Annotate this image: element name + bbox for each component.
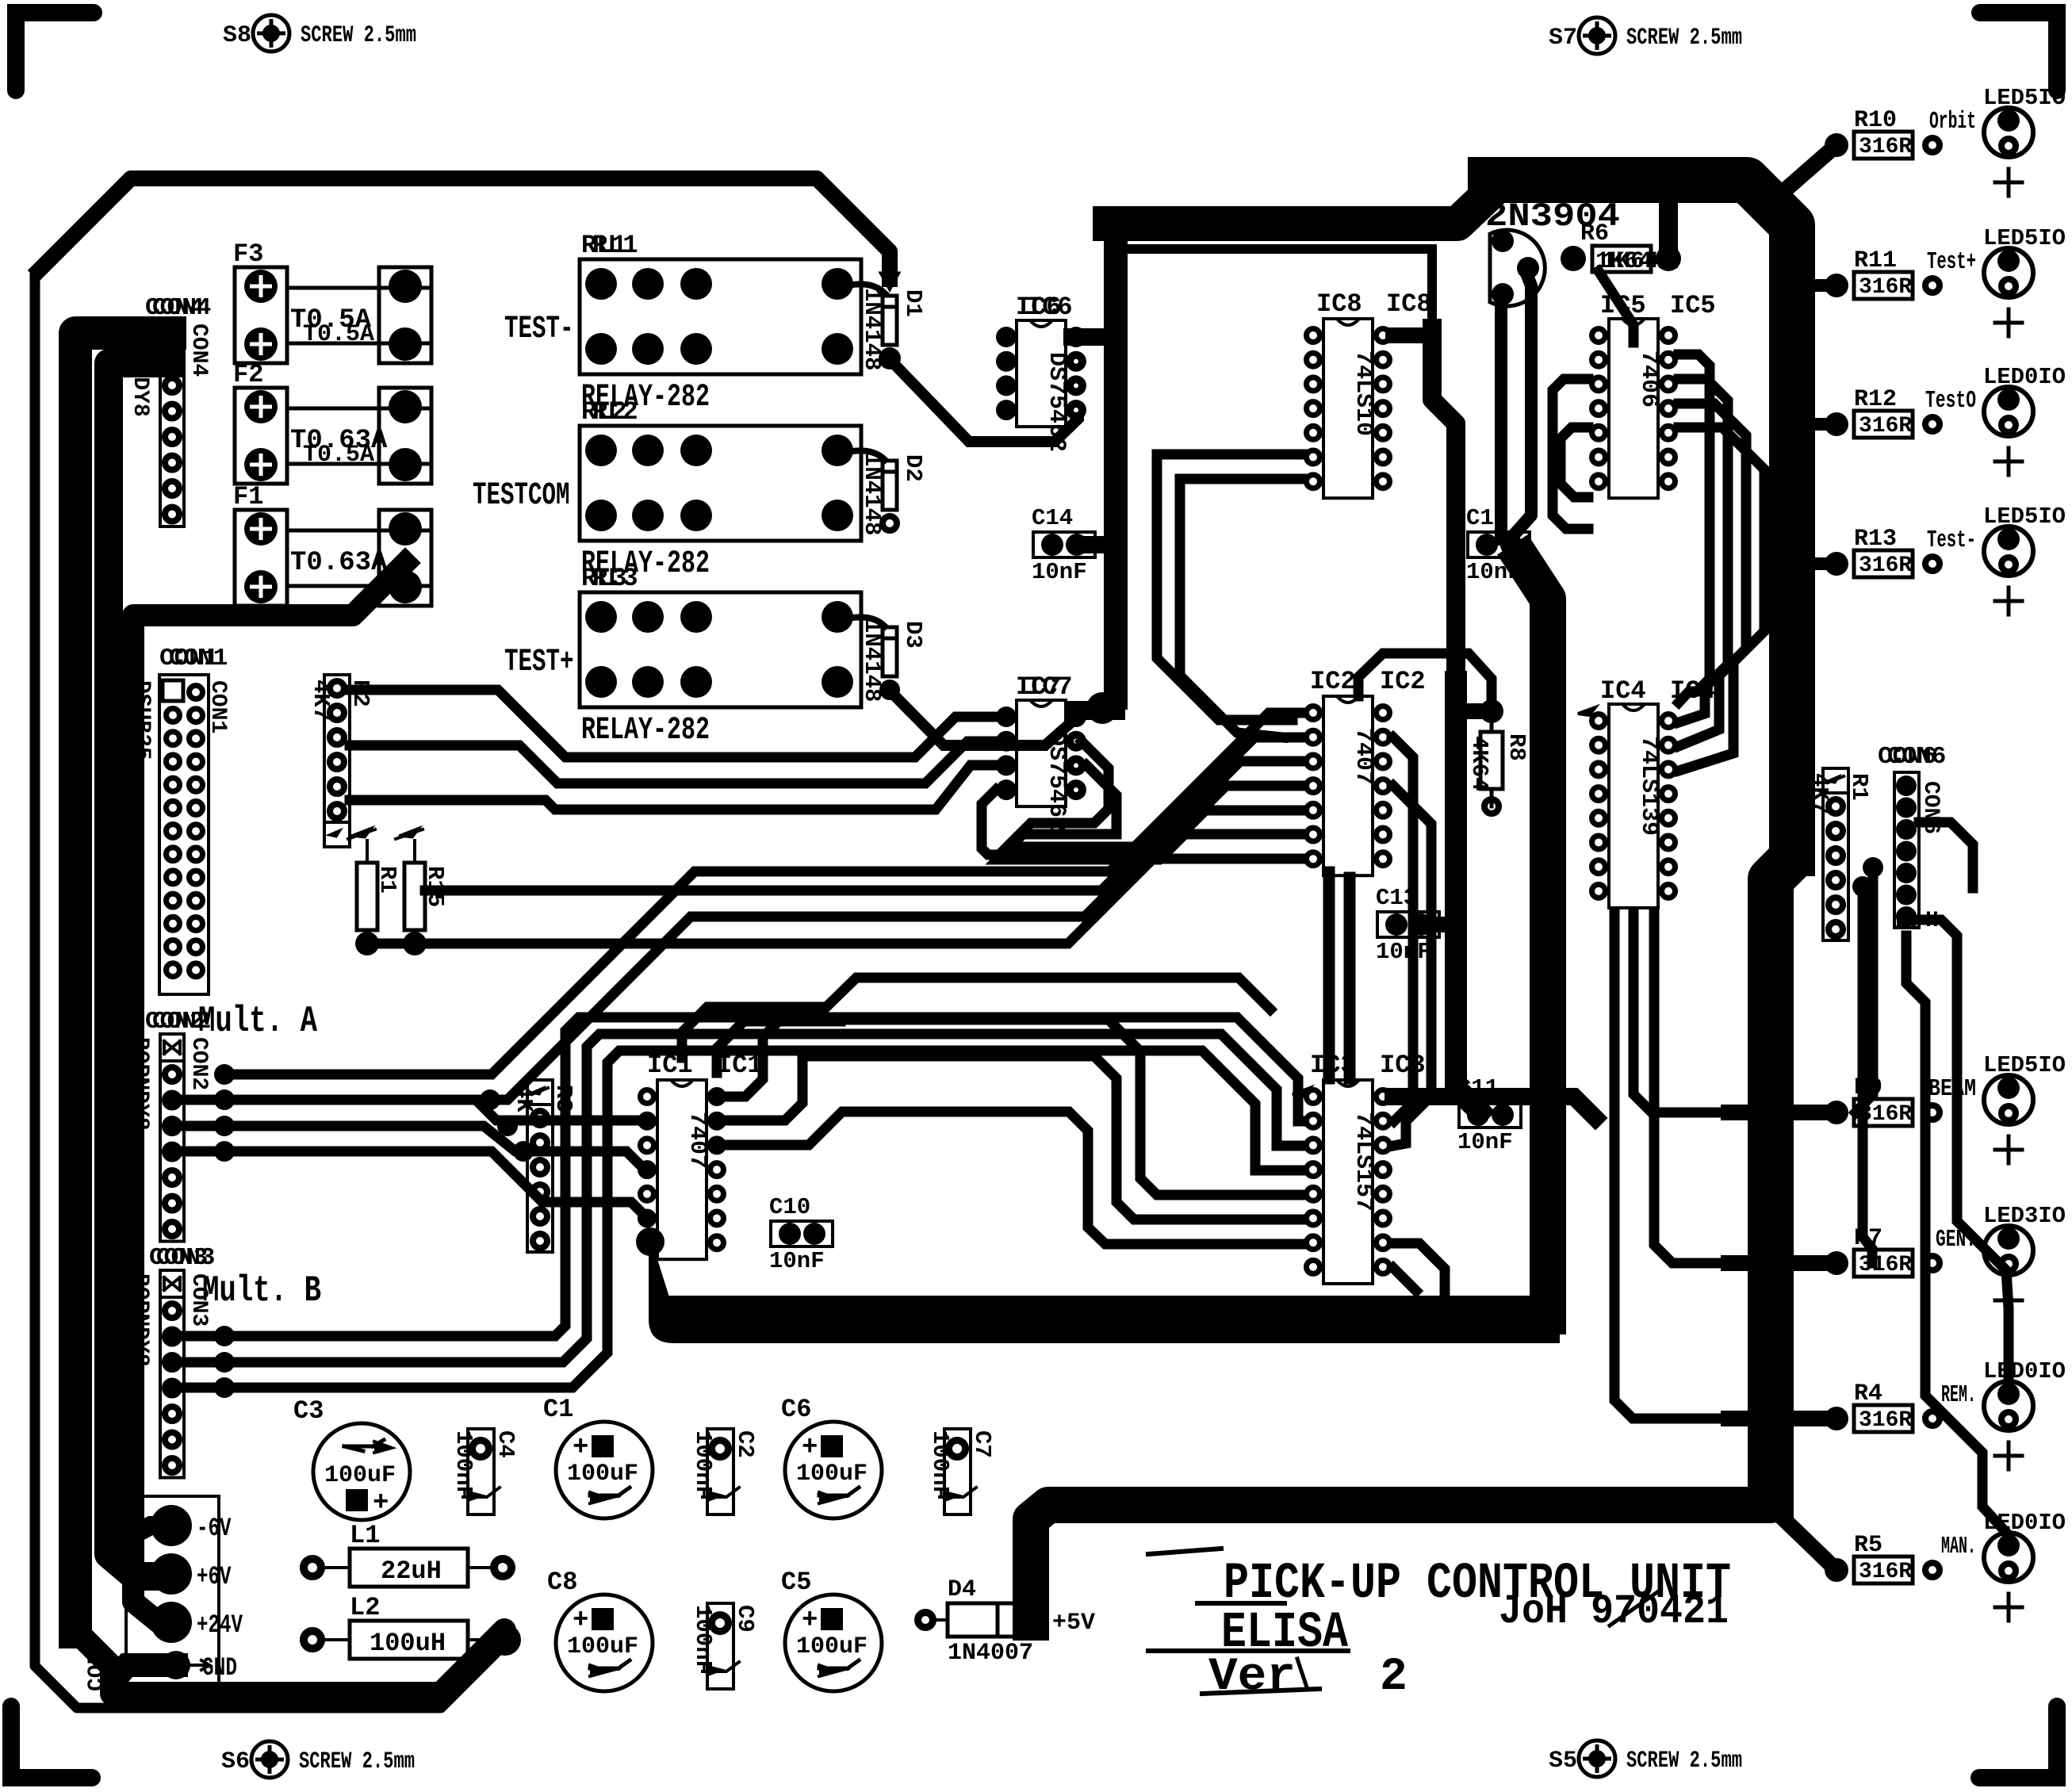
svg-text:RL1: RL1 bbox=[592, 231, 638, 260]
resistor R4 316R bbox=[1825, 1407, 1848, 1430]
resistor R8 4K64 bbox=[1480, 699, 1503, 723]
screw S6 bbox=[251, 1741, 288, 1778]
connector CON3 BORNDY8 bbox=[160, 1270, 184, 1478]
wire CON6 hook right bbox=[1919, 822, 1973, 888]
svg-text:IC4: IC4 bbox=[1600, 676, 1646, 706]
svg-text:CON4: CON4 bbox=[186, 324, 211, 377]
corner mark top-left bbox=[16, 13, 94, 90]
wire IC3 pin16 to bus2 bbox=[1393, 1097, 1595, 1118]
svg-text:100uH: 100uH bbox=[370, 1629, 446, 1658]
node D2 cathode pad bbox=[883, 516, 897, 530]
inductor L1 22uH bbox=[304, 1559, 321, 1576]
svg-text:2: 2 bbox=[1380, 1652, 1408, 1703]
wire IC8 outputs down to IC2 bbox=[1157, 454, 1303, 720]
wire IC5 right bundle down to IC4 bbox=[1679, 354, 1710, 703]
resistor R11 316R bbox=[1825, 274, 1848, 297]
svg-text:D1: D1 bbox=[900, 289, 926, 317]
fuse F2 bbox=[235, 388, 287, 484]
svg-text:BORNDY8: BORNDY8 bbox=[128, 324, 152, 417]
wire IC5 left hooks bbox=[1553, 379, 1588, 529]
wire arrow into D1 bbox=[880, 273, 899, 290]
svg-text:316R: 316R bbox=[1859, 553, 1912, 578]
svg-text:+: + bbox=[373, 1488, 389, 1518]
svg-text:R4: R4 bbox=[1854, 1380, 1882, 1407]
svg-text:IC2: IC2 bbox=[1310, 667, 1356, 696]
svg-text:DSUB25: DSUB25 bbox=[129, 680, 154, 760]
capacitor C13 10nF bbox=[1377, 912, 1439, 937]
svg-text:C7: C7 bbox=[969, 1430, 995, 1458]
svg-text:LED5IO: LED5IO bbox=[1983, 1052, 2066, 1078]
svg-text:S8: S8 bbox=[223, 22, 251, 49]
LED LED0IO TestO bbox=[1984, 387, 2033, 436]
svg-text:R11: R11 bbox=[1854, 247, 1897, 274]
wire R8 stub bbox=[1456, 703, 1489, 719]
svg-text:100uF: 100uF bbox=[324, 1462, 396, 1489]
wire IC3 right pads to bar A bbox=[1393, 1243, 1445, 1297]
svg-text:CON1: CON1 bbox=[169, 645, 228, 672]
IC IC1 7407 bbox=[657, 1080, 707, 1259]
svg-text:4K64: 4K64 bbox=[1466, 736, 1492, 791]
node IC3 pin1 mark bbox=[1293, 1088, 1310, 1096]
wire D3 cathode to IC7 bbox=[887, 688, 1078, 745]
node D3 cathode pad bbox=[883, 683, 897, 697]
wire bus stubs R9 R7 R4 bbox=[1729, 1105, 1836, 1120]
svg-text:R13: R13 bbox=[1854, 526, 1897, 553]
wire bus diag to R10 bbox=[1792, 145, 1836, 184]
node +5V bbox=[1014, 1606, 1041, 1633]
wire CON5 GND pad trace bbox=[119, 1665, 176, 1675]
wire IC2 bottom pair to IC3 bbox=[1323, 872, 1335, 1078]
svg-text:100nF: 100nF bbox=[690, 1430, 716, 1499]
IC IC5 7406 bbox=[1609, 319, 1658, 498]
capacitor C9 100nF bbox=[707, 1603, 733, 1689]
svg-text:+: + bbox=[802, 1606, 818, 1636]
wire IC4 outputs down to R9/R7/R4 rows bbox=[1633, 912, 1836, 1112]
capacitor C10 10nF bbox=[771, 1221, 833, 1246]
svg-text:-6V: -6V bbox=[197, 1514, 232, 1543]
svg-text:T0.5A: T0.5A bbox=[303, 321, 374, 348]
svg-text:LED5IO: LED5IO bbox=[1983, 504, 2066, 530]
svg-text:LED0IO: LED0IO bbox=[1983, 364, 2066, 390]
svg-text:C10: C10 bbox=[769, 1194, 810, 1220]
svg-text:CON1: CON1 bbox=[205, 680, 230, 733]
svg-text:LED3IO: LED3IO bbox=[1983, 1203, 2066, 1229]
svg-text:74LS10: 74LS10 bbox=[1350, 350, 1377, 436]
wire bus stubs R11-R13 bbox=[1792, 279, 1836, 292]
diode D2 1N4148 bbox=[883, 461, 897, 510]
svg-text:Mult. A: Mult. A bbox=[198, 1001, 317, 1042]
svg-text:BORNDY8: BORNDY8 bbox=[128, 1037, 152, 1131]
wire IC2 right wraps bbox=[1358, 653, 1492, 703]
screw S7 bbox=[1579, 17, 1615, 54]
resistor R12 316R bbox=[1825, 412, 1848, 436]
svg-text:100nF: 100nF bbox=[450, 1430, 477, 1499]
IC IC4 74LS139 bbox=[1609, 704, 1658, 908]
svg-text:C1: C1 bbox=[543, 1395, 573, 1424]
connector CON6 bbox=[1894, 772, 1919, 928]
svg-text:DS75462: DS75462 bbox=[1043, 352, 1070, 452]
svg-text:C2: C2 bbox=[732, 1430, 758, 1458]
node CON5 GND pad bbox=[162, 1651, 190, 1679]
svg-text:BORNDY8: BORNDY8 bbox=[128, 1273, 152, 1367]
svg-text:RL3: RL3 bbox=[592, 564, 638, 593]
svg-text:+: + bbox=[802, 1433, 818, 1463]
wire RL1 pad to D1 anode bbox=[841, 284, 885, 293]
svg-text:74LS157: 74LS157 bbox=[1350, 1112, 1377, 1212]
LED LED3IO GEN. bbox=[1984, 1226, 2033, 1275]
svg-text:+: + bbox=[573, 1606, 588, 1636]
resistor network R1 4K7 bbox=[1823, 768, 1848, 940]
svg-text:TEST-: TEST- bbox=[504, 312, 574, 347]
svg-text:C4: C4 bbox=[492, 1430, 519, 1458]
connector CON1 DSUB25 bbox=[159, 675, 209, 994]
svg-text:R1: R1 bbox=[1846, 773, 1872, 801]
svg-text:C14: C14 bbox=[1032, 505, 1073, 531]
svg-text:C8: C8 bbox=[547, 1568, 577, 1597]
fuse F1 bbox=[235, 510, 287, 606]
wire bundle B1 from R2/R15/CON2 to IC2 bbox=[350, 690, 996, 757]
svg-text:100nF: 100nF bbox=[690, 1605, 716, 1674]
wire inner line below top bus bbox=[1127, 249, 1432, 333]
board outline top edge bbox=[39, 178, 890, 279]
wire bus stub C14 bbox=[1080, 536, 1116, 553]
IC IC7 DS75462 bbox=[1017, 700, 1066, 806]
svg-text:100uF: 100uF bbox=[796, 1633, 867, 1660]
svg-text:+6V: +6V bbox=[197, 1562, 232, 1591]
svg-text:316R: 316R bbox=[1859, 135, 1912, 159]
svg-text:D2: D2 bbox=[900, 454, 926, 482]
svg-text:LED5IO: LED5IO bbox=[1983, 225, 2066, 251]
svg-text:Ver: Ver bbox=[1208, 1652, 1296, 1703]
IC IC8 74LS10 bbox=[1323, 319, 1373, 498]
fuse F3 bbox=[235, 267, 287, 363]
svg-text:T0.63A: T0.63A bbox=[290, 548, 388, 578]
svg-text:F1: F1 bbox=[233, 482, 263, 511]
svg-text:316R: 316R bbox=[1859, 1253, 1912, 1277]
node IC1 ground blob bbox=[636, 1227, 664, 1256]
svg-text:CON4: CON4 bbox=[152, 294, 211, 322]
svg-text:IC5: IC5 bbox=[1670, 291, 1716, 320]
capacitor C4 100nF bbox=[468, 1429, 494, 1514]
wire fuse F1 to +24V rail bbox=[133, 563, 405, 1622]
LED LED5IO Test- bbox=[1984, 526, 2033, 576]
svg-text:Test-: Test- bbox=[1927, 526, 1976, 554]
resistor network R2 4K7 bbox=[324, 675, 350, 847]
svg-text:316R: 316R bbox=[1859, 1408, 1912, 1433]
wire verticals to REM/MAN leds bbox=[1919, 920, 2009, 1390]
svg-text:R1: R1 bbox=[374, 866, 400, 894]
wire bus1 vertical bbox=[1456, 682, 1480, 1112]
svg-text:R10: R10 bbox=[1854, 107, 1897, 134]
node IC4 pin1 mark bbox=[1578, 707, 1595, 715]
wire RL2 pad to D2 anode bbox=[841, 450, 885, 460]
capacitor C14 10nF bbox=[1033, 532, 1095, 557]
LED LED0IO MAN. bbox=[1984, 1533, 2033, 1582]
wire R6 to IC5 bbox=[1599, 271, 1633, 343]
svg-text:100uF: 100uF bbox=[567, 1633, 638, 1660]
svg-text:Orbit: Orbit bbox=[1929, 108, 1976, 136]
capacitor C1 100uF bbox=[556, 1422, 653, 1518]
svg-text:C5: C5 bbox=[781, 1568, 811, 1597]
wire IC8 pin stub bbox=[1393, 327, 1432, 343]
corner mark bottom-left bbox=[11, 1706, 92, 1778]
IC IC3 74LS157 bbox=[1323, 1080, 1373, 1284]
wire bus blob at IC7 bbox=[1075, 701, 1116, 720]
svg-text:LED0IO: LED0IO bbox=[1983, 1358, 2066, 1384]
svg-text:SCREW 2.5mm: SCREW 2.5mm bbox=[299, 1748, 415, 1775]
svg-text:TESTCOM: TESTCOM bbox=[473, 478, 570, 514]
svg-text:REM.: REM. bbox=[1941, 1381, 1976, 1409]
svg-text:7406: 7406 bbox=[1635, 350, 1662, 408]
svg-text:100uF: 100uF bbox=[796, 1461, 867, 1488]
connector CON5 bbox=[126, 1496, 219, 1688]
svg-text:CON6: CON6 bbox=[1887, 743, 1946, 771]
wire GND bus2 vertical bbox=[1522, 560, 1548, 1316]
wire IC1 right pads staircase to IC3 bbox=[717, 1020, 1303, 1195]
resistor R7 316R bbox=[1825, 1251, 1848, 1275]
svg-text:DS75462: DS75462 bbox=[1043, 732, 1070, 832]
svg-text:74LS139: 74LS139 bbox=[1635, 736, 1662, 836]
svg-text:LED5IO: LED5IO bbox=[1983, 85, 2066, 111]
svg-text:T0.5A: T0.5A bbox=[303, 442, 374, 469]
resistor R10 316R bbox=[1825, 133, 1848, 157]
svg-text:100uF: 100uF bbox=[567, 1461, 638, 1488]
svg-text:D4: D4 bbox=[948, 1576, 976, 1603]
svg-text:R6: R6 bbox=[1580, 220, 1609, 247]
wire +6V trace from CON4 pin2 down to CON5 bbox=[109, 363, 170, 1576]
svg-text:IC8: IC8 bbox=[1316, 289, 1362, 319]
corner mark top-right bbox=[1980, 13, 2057, 90]
svg-text:JoH 970421: JoH 970421 bbox=[1499, 1588, 1729, 1635]
connector CON2 BORNDY8 bbox=[160, 1034, 184, 1242]
svg-text:R12: R12 bbox=[1854, 386, 1897, 413]
svg-text:MAN.: MAN. bbox=[1941, 1533, 1976, 1560]
wire CON6 verticals to R9/R7 bbox=[1856, 867, 1873, 1112]
svg-text:S7: S7 bbox=[1549, 25, 1577, 52]
svg-text:C9: C9 bbox=[732, 1605, 758, 1633]
svg-text:Mult. B: Mult. B bbox=[202, 1270, 321, 1311]
diode D1 1N4148 bbox=[883, 296, 897, 345]
svg-text:CON3: CON3 bbox=[156, 1244, 215, 1272]
resistor R13 316R bbox=[1825, 552, 1848, 576]
capacitor C8 100uF bbox=[556, 1595, 653, 1691]
svg-text:7407: 7407 bbox=[1350, 728, 1377, 785]
svg-text:10nF: 10nF bbox=[1457, 1129, 1513, 1155]
wire RL3 pad to D3 anode bbox=[841, 617, 885, 626]
screw S8 bbox=[253, 15, 289, 52]
svg-text:IC8: IC8 bbox=[1386, 289, 1432, 319]
svg-text:RELAY-282: RELAY-282 bbox=[581, 713, 710, 749]
svg-text:TestO: TestO bbox=[1925, 387, 1976, 415]
resistor R5 316R bbox=[1825, 1558, 1848, 1582]
svg-text:316R: 316R bbox=[1859, 414, 1912, 438]
capacitor C7 100nF bbox=[944, 1429, 971, 1514]
wire IC7 wrap traces to IC2 bbox=[1007, 741, 1303, 847]
svg-text:L2: L2 bbox=[350, 1593, 380, 1622]
svg-text:1K64: 1K64 bbox=[1602, 248, 1659, 275]
svg-text:C3: C3 bbox=[293, 1396, 324, 1426]
svg-text:RL2: RL2 bbox=[592, 397, 638, 427]
wire bus1 top hook bbox=[1432, 328, 1456, 690]
svg-text:+5V: +5V bbox=[1052, 1610, 1095, 1637]
svg-text:SCREW 2.5mm: SCREW 2.5mm bbox=[1626, 25, 1742, 52]
svg-text:R5: R5 bbox=[1854, 1532, 1882, 1559]
svg-text:IC6: IC6 bbox=[1027, 293, 1073, 322]
svg-text:4K7: 4K7 bbox=[308, 680, 334, 721]
LED LED0IO REM. bbox=[1984, 1381, 2033, 1430]
wire GND trace from CON4 pin1 down left edge bbox=[75, 333, 170, 1632]
relay RL1 RELAY-282 bbox=[580, 259, 861, 374]
capacitor C11 10nF bbox=[1459, 1102, 1521, 1128]
svg-text:S6: S6 bbox=[221, 1748, 250, 1775]
svg-text:C6: C6 bbox=[781, 1395, 811, 1424]
svg-text:SCREW 2.5mm: SCREW 2.5mm bbox=[1626, 1748, 1742, 1775]
wire bundle from CON3 Mult.B up and to IC3 bbox=[173, 1017, 1303, 1336]
screw S5 bbox=[1579, 1740, 1615, 1777]
svg-text:100nF: 100nF bbox=[927, 1430, 953, 1499]
wire IC1 top wrap traces bbox=[717, 1021, 841, 1073]
resistor R9 316R bbox=[1825, 1101, 1848, 1124]
capacitor C2 100nF bbox=[707, 1429, 733, 1514]
IC IC2 7407 bbox=[1323, 696, 1373, 875]
svg-text:F3: F3 bbox=[233, 239, 263, 269]
connector CON4 BORNDY8 bbox=[160, 320, 184, 526]
wire +5V bus: D4 riser, bottom bar B, right bus, top bar, center vertical bbox=[1031, 1476, 1771, 1622]
capacitor C5 100uF bbox=[785, 1595, 882, 1691]
svg-text:Test+: Test+ bbox=[1927, 248, 1976, 276]
wire bus stub IC6 pin8 bbox=[1072, 328, 1116, 346]
svg-text:TEST+: TEST+ bbox=[504, 645, 574, 680]
wire stub to CON5 -6V pad bbox=[109, 1526, 170, 1548]
wire D1 cathode to IC6 bbox=[887, 357, 1078, 442]
resistor R15 bbox=[404, 863, 425, 930]
resistor R6 1K64 bbox=[1561, 246, 1586, 271]
svg-text:SCREW 2.5mm: SCREW 2.5mm bbox=[301, 22, 416, 49]
transistor Q1 2N3904 bbox=[1490, 230, 1545, 306]
wire bus diag to R5 bbox=[1771, 1476, 1836, 1570]
LED LED5IO Test+ bbox=[1984, 248, 2033, 297]
svg-text:10nF: 10nF bbox=[769, 1248, 825, 1274]
svg-text:10nF: 10nF bbox=[1376, 939, 1431, 965]
LED LED5IO Orbit bbox=[1984, 108, 2033, 157]
inductor L2 100uH bbox=[304, 1631, 321, 1648]
wire C13 to bus1 bbox=[1421, 917, 1459, 932]
svg-text:L1: L1 bbox=[350, 1521, 380, 1550]
wire bus stub R6 bbox=[1659, 198, 1678, 258]
resistor R1 bbox=[357, 863, 377, 930]
svg-text:R8: R8 bbox=[1503, 733, 1530, 761]
svg-text:IC2: IC2 bbox=[1380, 667, 1426, 696]
svg-text:D3: D3 bbox=[900, 621, 926, 649]
diode D4 1N4007 bbox=[918, 1613, 933, 1628]
wire GND bar A horizontal bbox=[649, 1249, 682, 1319]
capacitor C3 100uF bbox=[313, 1423, 410, 1520]
svg-text:316R: 316R bbox=[1859, 275, 1912, 300]
svg-text:CON5: CON5 bbox=[85, 1638, 109, 1691]
wire Q1 emitter lines to C12 bbox=[1495, 293, 1507, 539]
IC IC6 DS75462 bbox=[1017, 320, 1066, 427]
svg-text:1N4007: 1N4007 bbox=[948, 1640, 1033, 1667]
capacitor C6 100uF bbox=[785, 1422, 882, 1518]
svg-text:22uH: 22uH bbox=[381, 1557, 442, 1586]
svg-text:10nF: 10nF bbox=[1032, 559, 1087, 585]
diode D3 1N4148 bbox=[883, 627, 897, 676]
svg-text:4K7: 4K7 bbox=[1806, 773, 1833, 814]
svg-text:F2: F2 bbox=[233, 360, 263, 389]
relay RL3 RELAY-282 bbox=[580, 592, 861, 707]
capacitor C12 10nF bbox=[1468, 532, 1530, 557]
svg-text:+24V: +24V bbox=[197, 1610, 243, 1640]
corner mark bottom-right bbox=[1979, 1706, 2057, 1778]
resistor network R3 4K7 bbox=[527, 1080, 553, 1252]
svg-text:IC7: IC7 bbox=[1027, 672, 1073, 702]
svg-text:IC3: IC3 bbox=[1380, 1051, 1426, 1080]
svg-text:GND: GND bbox=[202, 1653, 237, 1683]
svg-text:+: + bbox=[573, 1433, 588, 1463]
svg-text:316R: 316R bbox=[1859, 1560, 1912, 1584]
svg-text:7407: 7407 bbox=[684, 1112, 710, 1169]
board outline left edge bbox=[35, 274, 512, 1708]
svg-text:CON2: CON2 bbox=[186, 1037, 211, 1090]
node D1 cathode pad bbox=[879, 347, 901, 370]
relay RL2 RELAY-282 bbox=[580, 426, 861, 541]
LED LED5IO BEAM bbox=[1984, 1075, 2033, 1124]
svg-text:S5: S5 bbox=[1549, 1748, 1577, 1775]
wire bundle from CON2 Mult.A to IC1 bbox=[173, 1100, 647, 1120]
